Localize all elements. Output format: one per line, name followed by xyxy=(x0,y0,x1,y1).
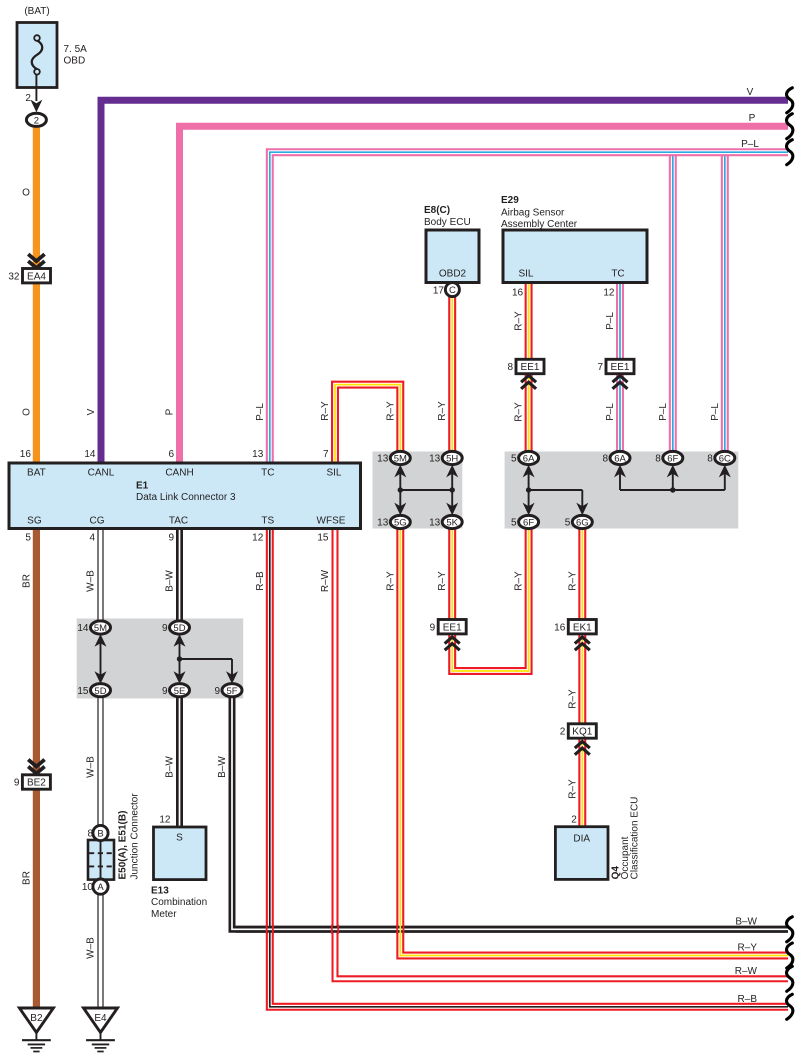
wire W-B CG to junction 5M xyxy=(97,529,103,622)
svg-text:R–Y: R–Y xyxy=(567,571,578,591)
svg-text:R–Y: R–Y xyxy=(437,571,448,591)
wire W-B 5D to junction connector and E4 ground xyxy=(97,696,103,1008)
svg-text:BR: BR xyxy=(21,574,32,588)
svg-text:32: 32 xyxy=(8,271,20,282)
node 5D pin 15 xyxy=(91,684,111,697)
svg-text:BAT: BAT xyxy=(27,467,46,478)
wire B-W TAC to junction 5D xyxy=(176,529,183,622)
svg-text:EE1: EE1 xyxy=(611,362,630,373)
svg-text:12: 12 xyxy=(159,814,171,825)
svg-text:OBD2: OBD2 xyxy=(439,269,467,280)
svg-text:16: 16 xyxy=(512,287,524,298)
svg-text:TS: TS xyxy=(261,516,274,527)
svg-text:E50(A), E51(B): E50(A), E51(B) xyxy=(118,811,129,880)
svg-text:2: 2 xyxy=(34,115,39,126)
wire crossings over B-W horizontal xyxy=(266,925,268,934)
svg-text:5K: 5K xyxy=(446,518,458,529)
svg-text:Assembly Center: Assembly Center xyxy=(501,219,578,230)
chevron into EA4 xyxy=(28,254,44,261)
svg-text:14: 14 xyxy=(77,623,89,634)
svg-text:W–B: W–B xyxy=(86,756,97,778)
svg-text:P–L: P–L xyxy=(710,403,721,421)
svg-text:5: 5 xyxy=(511,518,517,529)
svg-text:8: 8 xyxy=(602,454,608,465)
continuation mark B-W xyxy=(787,917,793,942)
svg-text:Junction Connector: Junction Connector xyxy=(130,793,141,880)
node 5M pin 13 xyxy=(390,451,410,464)
svg-text:12: 12 xyxy=(252,533,264,544)
svg-text:SIL: SIL xyxy=(326,467,341,478)
fuse 7.5A OBD xyxy=(17,23,57,88)
svg-text:W–B: W–B xyxy=(86,570,97,592)
junction links 6A-6F-6C right xyxy=(620,468,725,490)
svg-text:8: 8 xyxy=(655,454,661,465)
svg-text:13: 13 xyxy=(377,454,389,465)
node 5H pin 13 xyxy=(442,451,462,464)
junction links 5M-5D and 5D-5E-5F xyxy=(101,637,233,680)
junction links 5M-5H-5G-5K xyxy=(400,468,452,512)
svg-text:13: 13 xyxy=(429,454,441,465)
svg-text:BE2: BE2 xyxy=(27,778,46,789)
wire P-L drop to 6C xyxy=(721,150,729,452)
connector EE1 pin 8 xyxy=(516,359,544,373)
svg-text:E29: E29 xyxy=(501,195,519,206)
svg-text:R–W: R–W xyxy=(735,966,758,977)
wire B-W 5F to right edge xyxy=(232,696,788,930)
svg-text:13: 13 xyxy=(377,518,389,529)
node 6A pin 5 xyxy=(519,451,539,464)
svg-text:17: 17 xyxy=(433,285,445,296)
wire B-W 5E to E13 combination meter xyxy=(176,696,183,827)
wire R-B TS to right edge xyxy=(270,529,788,1007)
svg-text:A: A xyxy=(97,882,104,893)
svg-text:6A: 6A xyxy=(523,454,535,465)
svg-text:8: 8 xyxy=(707,454,713,465)
svg-text:15: 15 xyxy=(77,686,89,697)
svg-text:14: 14 xyxy=(84,449,96,460)
svg-text:R–Y: R–Y xyxy=(567,689,578,709)
svg-text:5F: 5F xyxy=(226,686,237,697)
svg-text:E8(C): E8(C) xyxy=(424,205,450,216)
svg-text:E13: E13 xyxy=(151,885,169,896)
svg-text:6A: 6A xyxy=(614,454,626,465)
wire fuse to connector 2 xyxy=(35,75,37,102)
svg-text:KQ1: KQ1 xyxy=(572,727,592,738)
wire R-Y E29 SIL to 6A xyxy=(525,283,533,452)
wire O (orange) battery feed xyxy=(33,126,40,463)
svg-text:6G: 6G xyxy=(576,518,589,529)
svg-text:O: O xyxy=(22,188,30,199)
wire P (pink) CANH to right edge xyxy=(180,126,789,463)
svg-text:EK1: EK1 xyxy=(573,622,592,633)
svg-text:15: 15 xyxy=(317,533,329,544)
svg-text:6C: 6C xyxy=(719,454,731,465)
svg-text:16: 16 xyxy=(554,622,566,633)
svg-text:9: 9 xyxy=(162,686,168,697)
svg-text:9: 9 xyxy=(162,623,168,634)
svg-text:DIA: DIA xyxy=(573,834,590,845)
svg-text:W–B: W–B xyxy=(86,937,97,959)
svg-text:P: P xyxy=(165,408,176,415)
connector EK1 pin 16 xyxy=(568,620,596,634)
svg-text:12: 12 xyxy=(603,287,615,298)
svg-text:R–Y: R–Y xyxy=(567,779,578,799)
wire B-W horizontal run (over crossings) xyxy=(236,926,789,933)
svg-text:9: 9 xyxy=(168,533,174,544)
svg-text:6F: 6F xyxy=(523,518,534,529)
svg-text:TC: TC xyxy=(611,269,624,280)
svg-text:4: 4 xyxy=(89,533,95,544)
svg-text:16: 16 xyxy=(20,449,32,460)
svg-text:B: B xyxy=(97,829,103,840)
svg-text:P–L: P–L xyxy=(605,312,616,330)
svg-text:R–Y: R–Y xyxy=(437,401,448,421)
node 5E pin 9 xyxy=(170,684,190,697)
connector KQ1 pin 2 xyxy=(568,724,596,738)
junction connector E50(A)/E51(B) xyxy=(88,840,114,880)
continuation mark V xyxy=(787,88,793,113)
svg-text:R–Y: R–Y xyxy=(738,943,758,954)
wire P-L horizontal and drop to E1 TC xyxy=(270,152,788,463)
svg-text:7: 7 xyxy=(597,362,603,373)
wire R-Y OBD2 to 5H xyxy=(448,297,456,452)
svg-text:R–B: R–B xyxy=(738,994,758,1005)
svg-text:R–Y: R–Y xyxy=(514,571,525,591)
svg-text:WFSE: WFSE xyxy=(317,516,346,527)
continuation mark R-W xyxy=(787,966,793,991)
junction block shading (far right) xyxy=(505,452,739,529)
ground E4 xyxy=(84,1008,118,1033)
svg-text:5: 5 xyxy=(25,533,31,544)
svg-text:6F: 6F xyxy=(667,454,678,465)
wire R-Y 5G to right edge xyxy=(400,529,788,956)
svg-text:5H: 5H xyxy=(446,454,458,465)
ECU E1 Data Link Connector 3 xyxy=(9,463,361,529)
wire V (purple) CANL to right edge xyxy=(101,100,788,463)
node 6F pin 5 xyxy=(519,515,539,528)
ground B2 xyxy=(19,1008,53,1033)
node 6C pin 8 xyxy=(715,451,735,464)
svg-text:P–L: P–L xyxy=(605,403,616,421)
svg-text:7: 7 xyxy=(323,449,329,460)
svg-text:2: 2 xyxy=(560,727,566,738)
svg-text:S: S xyxy=(176,833,183,844)
svg-text:Body ECU: Body ECU xyxy=(424,217,471,228)
connector EA4 pin 32 xyxy=(23,269,51,283)
svg-text:5: 5 xyxy=(511,454,517,465)
svg-text:BR: BR xyxy=(21,871,32,885)
wire R-Y 6G to Q4 DIA xyxy=(578,529,586,827)
node 5D pin 9 xyxy=(170,621,190,634)
svg-text:P: P xyxy=(749,113,756,124)
junction block shading (right of E1) xyxy=(373,452,463,529)
svg-text:9: 9 xyxy=(14,778,20,789)
node 5F pin 9 xyxy=(222,684,242,697)
connector EE1 pin 9 xyxy=(438,620,466,634)
svg-text:SG: SG xyxy=(27,516,42,527)
svg-text:9: 9 xyxy=(430,622,436,633)
svg-text:2: 2 xyxy=(25,93,31,104)
svg-text:5D: 5D xyxy=(173,623,185,634)
svg-text:O: O xyxy=(21,408,32,416)
wire R-W WFSE to right edge xyxy=(335,529,788,979)
svg-text:(BAT): (BAT) xyxy=(24,6,49,17)
node 6A pin 8 xyxy=(610,451,630,464)
continuation mark P-L xyxy=(787,140,793,165)
svg-text:TC: TC xyxy=(261,467,274,478)
svg-text:B–W: B–W xyxy=(217,756,228,778)
svg-text:5M: 5M xyxy=(394,454,407,465)
svg-text:E1: E1 xyxy=(136,480,149,491)
node 5K pin 13 xyxy=(442,515,462,528)
connector oval 2 xyxy=(26,113,46,126)
svg-text:SIL: SIL xyxy=(518,269,533,280)
svg-text:Meter: Meter xyxy=(151,909,177,920)
svg-text:R–Y: R–Y xyxy=(385,401,396,421)
svg-text:5: 5 xyxy=(565,518,571,529)
svg-text:CANH: CANH xyxy=(165,467,193,478)
svg-text:8: 8 xyxy=(507,362,513,373)
junction block shading (left, below E1) xyxy=(77,619,244,699)
chevron into BE2 xyxy=(28,760,44,767)
svg-text:R–Y: R–Y xyxy=(320,401,331,421)
connector EE1 pin 7 xyxy=(606,359,634,373)
svg-text:V: V xyxy=(86,408,97,415)
ECU Q4 Occupant Classification ECU xyxy=(555,827,608,880)
svg-text:9: 9 xyxy=(214,686,220,697)
svg-text:13: 13 xyxy=(429,518,441,529)
wire R-Y 5K to EE1 and loop to 6F xyxy=(452,529,528,672)
node 6F pin 8 xyxy=(663,451,683,464)
junction links 6A-6F-6G xyxy=(529,468,583,512)
wire P-L E29 TC to 6A xyxy=(616,283,624,452)
node 5M pin 14 xyxy=(91,621,111,634)
svg-text:5M: 5M xyxy=(94,623,107,634)
svg-text:V: V xyxy=(747,87,754,98)
svg-text:R–Y: R–Y xyxy=(514,311,525,331)
svg-text:P–L: P–L xyxy=(255,403,266,421)
continuation mark R-B xyxy=(787,994,793,1019)
svg-text:Combination: Combination xyxy=(151,897,207,908)
svg-text:P–L: P–L xyxy=(741,139,759,150)
wire P-L drop to 6F xyxy=(669,150,677,452)
svg-text:B–W: B–W xyxy=(165,756,176,778)
svg-text:EA4: EA4 xyxy=(27,271,46,282)
svg-text:CG: CG xyxy=(90,516,105,527)
continuation mark P xyxy=(787,114,793,139)
svg-text:5E: 5E xyxy=(174,686,186,697)
node 5G pin 13 xyxy=(390,515,410,528)
wire BR (brown) SG to B2 ground xyxy=(33,529,40,1009)
svg-text:Classification ECU: Classification ECU xyxy=(630,797,641,880)
svg-text:E4: E4 xyxy=(94,1013,107,1024)
svg-text:B2: B2 xyxy=(30,1013,43,1024)
svg-text:R–Y: R–Y xyxy=(514,402,525,422)
node 6G pin 5 xyxy=(572,515,592,528)
svg-text:6: 6 xyxy=(168,449,174,460)
wire R-Y SIL loop to 5M xyxy=(335,385,400,463)
svg-text:Airbag Sensor: Airbag Sensor xyxy=(501,207,565,218)
svg-text:C: C xyxy=(449,285,456,296)
svg-text:EE1: EE1 xyxy=(521,362,540,373)
svg-text:B–W: B–W xyxy=(165,570,176,592)
svg-text:EE1: EE1 xyxy=(443,622,462,633)
svg-text:TAC: TAC xyxy=(169,516,188,527)
svg-text:OBD: OBD xyxy=(64,56,86,67)
svg-text:5G: 5G xyxy=(394,518,407,529)
svg-text:B–W: B–W xyxy=(735,917,757,928)
svg-text:R–B: R–B xyxy=(255,571,266,591)
svg-text:2: 2 xyxy=(571,814,577,825)
svg-text:Data Link Connector 3: Data Link Connector 3 xyxy=(136,492,236,503)
svg-text:R–W: R–W xyxy=(320,569,331,592)
svg-text:5D: 5D xyxy=(94,686,106,697)
svg-text:R–Y: R–Y xyxy=(385,571,396,591)
continuation mark R-Y xyxy=(787,943,793,968)
svg-text:CANL: CANL xyxy=(88,467,115,478)
arrow into connector 2 xyxy=(30,100,42,113)
svg-text:7. 5A: 7. 5A xyxy=(64,44,88,55)
svg-text:P–L: P–L xyxy=(658,403,669,421)
connector BE2 pin 9 xyxy=(22,775,50,789)
svg-text:13: 13 xyxy=(252,449,264,460)
